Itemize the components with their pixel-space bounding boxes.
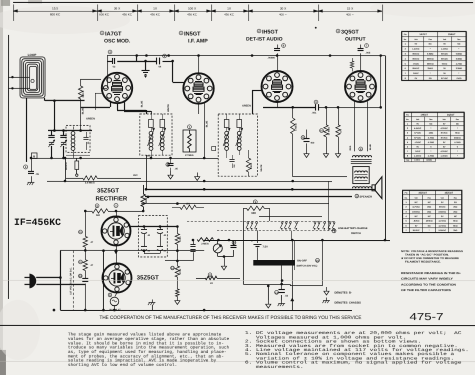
svg-text:GREEN: GREEN <box>86 117 95 120</box>
svg-text:SWITCH: SWITCH <box>351 232 361 235</box>
svg-text:OF THE FILTER CAPACITORS: OF THE FILTER CAPACITORS <box>401 289 451 292</box>
banner rule <box>0 324 475 326</box>
svg-text:.00080: .00080 <box>268 57 276 60</box>
tube V1 1A7GT converter <box>102 73 132 103</box>
resistor 27 MEG <box>183 130 196 152</box>
svg-text:30 X: 30 X <box>280 6 286 10</box>
resistor 1 MEG grid leak <box>292 107 294 118</box>
svg-text:1.4VDC: 1.4VDC <box>414 155 422 158</box>
svg-text:shorting AVC to low end of vol: shorting AVC to low end of volume contro… <box>68 362 177 368</box>
resistor 1000 filament <box>142 185 144 194</box>
wire V1 cathode down <box>117 103 119 110</box>
svg-text:-.8VDC: -.8VDC <box>413 220 420 223</box>
wave switch box <box>76 158 78 161</box>
wire switch verticals <box>291 240 293 286</box>
svg-text:BLUE: BLUE <box>141 100 144 107</box>
wire IF-A primary return <box>145 155 147 189</box>
svg-text:CIRCUITS MAY VARY WIDELY: CIRCUITS MAY VARY WIDELY <box>401 278 453 281</box>
svg-text:2.7MΩ: 2.7MΩ <box>428 136 435 139</box>
voltage table 35Z5GT <box>403 190 462 192</box>
resistor 220K lower <box>176 289 180 297</box>
svg-text:Res: Res <box>429 38 432 41</box>
wire plug to rectifier <box>36 276 60 278</box>
svg-text:1.4VAC: 1.4VAC <box>412 48 420 51</box>
svg-text:456 KC: 456 KC <box>187 12 197 16</box>
wire stub chassis mid <box>151 305 153 310</box>
svg-text:OUTPUT: OUTPUT <box>345 37 366 43</box>
svg-text:750Ω: 750Ω <box>456 77 461 80</box>
wire V6 to pilot lamp <box>115 293 117 297</box>
loop antenna <box>20 57 45 98</box>
svg-text:3 MEG: 3 MEG <box>201 242 209 245</box>
resistor 220K osc grid <box>80 79 82 86</box>
IF-A primary winding <box>149 131 153 135</box>
wire 330 drops <box>242 208 244 221</box>
IF-B tuning arrows <box>223 128 230 146</box>
bus wire y240 <box>204 239 390 241</box>
svg-text:Res: Res <box>454 196 457 199</box>
wire switch bottom <box>290 285 322 287</box>
capacitor C9 .001 coupling <box>314 100 318 104</box>
left frame line <box>7 35 9 299</box>
wire V1 grid elbow <box>110 102 112 107</box>
svg-text:NC: NC <box>428 215 432 218</box>
svg-text:No.: No. <box>406 118 409 121</box>
bus wire y226 filter <box>131 225 178 227</box>
label V4 3Q5GT OUTPUT <box>336 29 340 33</box>
svg-text:measurements.: measurements. <box>245 365 304 370</box>
svg-text:Volt: Volt <box>443 118 447 121</box>
svg-text:15.5: 15.5 <box>52 6 58 10</box>
detector plate bus wire <box>263 107 316 109</box>
wire V6 left pin column <box>102 251 104 310</box>
capacitor C4 .04 IF grid <box>163 54 167 58</box>
battery pack black bar <box>253 260 295 266</box>
svg-text:Res: Res <box>456 118 459 121</box>
svg-text:117 VOLTS A.C. OR D.C.: 117 VOLTS A.C. OR D.C. <box>69 267 72 295</box>
svg-text:IH5GT: IH5GT <box>262 30 279 36</box>
B- ground lower <box>176 296 178 300</box>
svg-text:DENOTES B-: DENOTES B- <box>334 291 351 294</box>
battery switch dashed line A <box>187 220 335 222</box>
wire gang top bus <box>48 129 92 131</box>
svg-text:7VDC: 7VDC <box>415 150 421 153</box>
svg-text:FILAMENT RESISTANCE.: FILAMENT RESISTANCE. <box>405 261 441 264</box>
capacitor C10 .05 cathode <box>166 163 170 167</box>
svg-text:No.: No. <box>404 38 407 41</box>
svg-text:AVC: AVC <box>133 174 138 177</box>
capacitor C12 .05 <box>232 241 236 245</box>
svg-text:4.2VDC: 4.2VDC <box>440 150 448 153</box>
svg-text:9KΩ: 9KΩ <box>455 132 460 135</box>
switch contacts <box>247 222 249 224</box>
svg-text:85VDC: 85VDC <box>441 53 448 56</box>
earth ground between V1 V2 <box>145 61 147 71</box>
capacitor pair 190 <box>192 240 194 245</box>
svg-text:25Ω: 25Ω <box>427 210 431 213</box>
legend denotes chassis <box>325 298 327 301</box>
resistor 4700 filter <box>176 226 178 233</box>
svg-text:Volt: Volt <box>416 118 420 121</box>
bus wire y203 <box>141 202 329 204</box>
top border line <box>13 1 473 3</box>
bus wire y176 B-minus <box>293 176 347 178</box>
svg-text:OSC MOD.: OSC MOD. <box>104 38 131 44</box>
corner smudge <box>1 0 10 6</box>
svg-text:.001: .001 <box>312 111 317 114</box>
legend denotes B- <box>325 287 327 291</box>
svg-text:Volt: Volt <box>441 196 445 199</box>
label SPEAKER <box>355 194 359 198</box>
svg-text:GREEN: GREEN <box>242 105 251 108</box>
label V1 1A7GT OSC MOD <box>100 31 104 35</box>
wire V5 to V6 <box>115 246 117 264</box>
variable capacitor C1B oscillator <box>63 131 65 136</box>
svg-text:I.F. AMP: I.F. AMP <box>188 38 208 44</box>
IF-B primary winding <box>225 131 229 135</box>
svg-text:4.2VDC: 4.2VDC <box>441 127 449 130</box>
capacitor C7 grid trimmer <box>188 125 192 129</box>
svg-text:105VAC: 105VAC <box>412 210 420 213</box>
svg-text:0Ω: 0Ω <box>429 77 432 80</box>
resistor 5.6 MEG <box>31 177 78 179</box>
svg-text:Res: Res <box>457 38 460 41</box>
svg-text:4.7MΩ: 4.7MΩ <box>456 62 463 65</box>
voltage table 1H5GT 3Q5GT <box>404 112 464 114</box>
B- ground screen <box>197 172 199 176</box>
power plug <box>30 274 36 288</box>
svg-text:117VAC: 117VAC <box>438 224 446 227</box>
wire V1 left pin <box>95 92 102 94</box>
svg-text:IF=456KC: IF=456KC <box>14 217 61 228</box>
svg-text:ACCORDING TO THE CONDITION: ACCORDING TO THE CONDITION <box>401 283 456 286</box>
svg-text:600 KC: 600 KC <box>50 12 61 16</box>
svg-text:1.4VAC: 1.4VAC <box>441 48 449 51</box>
svg-text:35Z5GT: 35Z5GT <box>445 192 454 195</box>
svg-text:★ DO NOT USE OHMMETER TO MEASU: ★ DO NOT USE OHMMETER TO MEASURE <box>401 256 459 260</box>
filter capacitor dashed box MFD <box>138 216 167 257</box>
speaker <box>372 185 375 191</box>
tube V3 1H5GT det-1st audio <box>262 71 293 102</box>
resistor 100K diode load <box>248 150 250 158</box>
svg-text:NC: NC <box>429 123 433 126</box>
svg-text:1.4VDC: 1.4VDC <box>414 159 421 162</box>
variable capacitor C1A tuning <box>51 131 53 136</box>
wire loop bottom down <box>26 98 28 162</box>
wire V1 plate drop <box>107 55 109 88</box>
capacitor C11 400MMF <box>301 136 305 140</box>
svg-text:35Z5GT: 35Z5GT <box>418 192 427 195</box>
svg-text:120MΩ: 120MΩ <box>426 159 432 162</box>
svg-text:NC: NC <box>429 43 433 46</box>
IF-A tuning arrows <box>148 128 155 146</box>
wire lamp to bus <box>113 306 115 310</box>
wire loop to tuning gang <box>44 98 46 101</box>
svg-text:104VAC: 104VAC <box>438 229 446 232</box>
svg-text:400 ∼: 400 ∼ <box>346 12 355 16</box>
svg-text:IA7GT: IA7GT <box>105 31 122 37</box>
chassis ground line cap <box>280 301 282 304</box>
svg-text:0.8MΩ: 0.8MΩ <box>427 53 434 56</box>
resistor 470K <box>176 251 178 266</box>
bus wire y189 <box>145 188 375 190</box>
capacitor 20MMF padder <box>86 132 88 138</box>
svg-text:265KΩ: 265KΩ <box>454 136 461 139</box>
capacitor C13 .02 line <box>275 290 279 294</box>
chassis ground AVC <box>31 179 33 182</box>
wire V5 plate <box>115 211 117 216</box>
svg-text:-.6VDC: -.6VDC <box>414 141 421 144</box>
svg-text:RECTIFIER: RECTIFIER <box>95 196 127 203</box>
B- ground volume <box>223 256 225 262</box>
B- ground 400MMF <box>306 150 308 154</box>
svg-text:Res: Res <box>429 118 432 121</box>
svg-text:85VDC: 85VDC <box>413 67 420 70</box>
svg-text:WHITE: WHITE <box>167 104 170 112</box>
electrolytic 20MFD A <box>143 243 145 247</box>
svg-text:5.6VDC: 5.6VDC <box>414 127 422 130</box>
svg-text:BLUE: BLUE <box>369 144 372 150</box>
svg-text:NC: NC <box>428 224 432 227</box>
wire V1 screen elbow <box>124 102 126 111</box>
svg-text:35Z5GT: 35Z5GT <box>97 187 119 194</box>
svg-text:117VAC: 117VAC <box>438 220 446 223</box>
svg-text:3Q5GT: 3Q5GT <box>447 114 455 117</box>
wire V2 grid cap <box>198 55 200 73</box>
IF-A secondary winding <box>160 131 164 135</box>
capacitor C8 .005 plate <box>365 44 369 48</box>
svg-text:91VDC: 91VDC <box>413 229 420 232</box>
tube V4 3Q5GT output <box>345 71 376 102</box>
svg-text:25Ω: 25Ω <box>427 206 431 209</box>
svg-text:SPEAKER: SPEAKER <box>359 195 372 198</box>
svg-text:NC: NC <box>457 43 461 46</box>
svg-text:LOOP: LOOP <box>28 53 37 57</box>
svg-text:25Ω: 25Ω <box>453 206 457 209</box>
label V2 1N5GT IF AMP <box>179 31 183 35</box>
svg-text:87VDC: 87VDC <box>414 136 421 139</box>
paper tone patches <box>0 6 130 34</box>
svg-text:7.5V: 7.5V <box>262 246 268 249</box>
svg-text:475-7: 475-7 <box>409 312 443 323</box>
svg-text:85VDC: 85VDC <box>413 53 420 56</box>
wire filter cap returns <box>143 251 145 254</box>
B- ground 470 <box>338 150 340 154</box>
svg-text:10 MEG: 10 MEG <box>328 127 331 136</box>
wire filament feed <box>60 249 85 251</box>
svg-text:NC: NC <box>454 215 458 218</box>
stage-gain dimension line <box>13 10 382 12</box>
volume control 3 MEG <box>197 238 213 242</box>
svg-text:NC: NC <box>428 201 432 204</box>
wire V2 plate to IF2 <box>198 104 200 114</box>
tube V5 35Z5GT rectifier <box>101 216 130 245</box>
capacitor C5 .05 AVC bypass <box>24 165 28 169</box>
svg-text:No.: No. <box>405 196 408 199</box>
wire gang frame to AVC <box>26 161 31 163</box>
capacitor 250MMF diode <box>232 155 234 159</box>
IF-A leads <box>151 150 153 155</box>
svg-text:100 K: 100 K <box>250 163 253 170</box>
svg-text:.005: .005 <box>366 52 371 55</box>
svg-text:400 ∼: 400 ∼ <box>279 12 288 16</box>
wire osc coil bottom <box>66 154 90 156</box>
svg-text:+: + <box>251 239 253 243</box>
svg-text:3.3MΩ: 3.3MΩ <box>456 57 463 60</box>
label V3 1H5GT DET-1ST AUDIO <box>257 29 261 33</box>
svg-text:30VAC: 30VAC <box>439 206 446 209</box>
svg-text:Volt: Volt <box>414 38 418 41</box>
svg-text:3Q5GT: 3Q5GT <box>341 30 359 36</box>
svg-text:15K: 15K <box>186 202 191 205</box>
AVC bus wire <box>31 157 218 159</box>
svg-text:456 KC: 456 KC <box>150 12 160 16</box>
svg-text:IN5GT: IN5GT <box>184 31 201 37</box>
svg-text:0Ω: 0Ω <box>454 201 457 204</box>
svg-text:THE COOPERATION OF THE MANUFAC: THE COOPERATION OF THE MANUFACTURER OF T… <box>99 315 362 321</box>
svg-text:Volt: Volt <box>415 196 419 199</box>
svg-text:1X: 1X <box>153 6 157 10</box>
electrolytic 40MFD B <box>159 226 161 229</box>
capacitor line bypass <box>78 274 82 278</box>
svg-text:NC: NC <box>415 215 419 218</box>
IF transformer A dashed box <box>140 114 172 155</box>
svg-text:330KΩ: 330KΩ <box>427 57 434 60</box>
svg-text:DENOTES CHASSIS: DENOTES CHASSIS <box>334 302 361 305</box>
svg-text:8KΩ: 8KΩ <box>453 224 458 227</box>
svg-text:100 X: 100 X <box>188 6 196 10</box>
switch box outline <box>242 221 244 284</box>
svg-text:ON-OFF: ON-OFF <box>297 259 307 262</box>
electrolytic 40MFD A <box>143 226 145 229</box>
capacitor C3 .02 osc grid <box>108 50 112 54</box>
svg-text:456 KC: 456 KC <box>122 12 132 16</box>
svg-text:Res: Res <box>428 196 431 199</box>
capacitor C6 .00080 det <box>282 44 286 48</box>
wire V4 plate leads to output transformer <box>354 102 356 152</box>
svg-text:B: B <box>33 154 35 158</box>
svg-text:RESISTANCE READINGS IN THE B+: RESISTANCE READINGS IN THE B+ <box>401 272 462 275</box>
electrolytic 20MFD B <box>159 243 161 247</box>
bottom bus wire <box>60 309 352 311</box>
svg-text:400KΩ: 400KΩ <box>426 220 433 223</box>
output transformer T3 <box>359 147 363 151</box>
svg-text:RED: RED <box>146 155 151 158</box>
svg-text:8KΩ: 8KΩ <box>453 220 458 223</box>
svg-text:600 KC: 600 KC <box>99 12 109 16</box>
svg-text:4700: 4700 <box>179 236 182 242</box>
svg-text:27 MEG: 27 MEG <box>185 154 194 157</box>
right frame wire <box>384 56 386 240</box>
svg-text:RED: RED <box>349 145 352 150</box>
wire V2 bottom to AVC <box>204 103 206 157</box>
wire V3 plate to bus <box>277 102 279 107</box>
voltage table 1A7GT 1N5GT <box>402 31 466 33</box>
svg-text:1000: 1000 <box>145 197 148 203</box>
svg-text:4.7MΩ: 4.7MΩ <box>428 141 435 144</box>
svg-text:85VDC: 85VDC <box>413 57 420 60</box>
tube V6 35Z5GT second <box>102 263 131 292</box>
resistor grid stopper V4 <box>352 58 354 61</box>
svg-text:87VDC: 87VDC <box>441 77 448 80</box>
svg-text:560: 560 <box>96 214 101 217</box>
svg-text:25Ω: 25Ω <box>453 229 457 232</box>
resistor 10 MEG <box>320 129 324 133</box>
svg-text:0.8MΩ: 0.8MΩ <box>456 53 463 56</box>
svg-text:LINE-BATTERY-CHARGE: LINE-BATTERY-CHARGE <box>338 227 368 230</box>
svg-text:456 KC: 456 KC <box>224 12 234 16</box>
resistor 470K circnum <box>171 266 175 270</box>
svg-text:330KΩ: 330KΩ <box>427 62 434 65</box>
svg-text:1MΩ: 1MΩ <box>429 132 434 135</box>
svg-text:25KΩ: 25KΩ <box>427 67 433 70</box>
battery 7.5V <box>256 231 258 244</box>
oscillator coil T1 dashed box <box>66 126 90 153</box>
svg-text:330: 330 <box>251 211 256 215</box>
svg-text:BLUE: BLUE <box>205 120 208 127</box>
svg-text:1H5GT: 1H5GT <box>421 114 429 117</box>
bus wire y181 <box>47 180 332 182</box>
dashed line voltage <box>72 251 74 310</box>
B- ground 10MEG <box>326 150 328 154</box>
pilot lamp <box>110 297 119 306</box>
svg-text:4.7MΩ: 4.7MΩ <box>454 141 461 144</box>
svg-text:220 K: 220 K <box>82 90 85 97</box>
svg-text:1N5GT: 1N5GT <box>448 33 456 36</box>
switch wire y216 <box>259 216 322 218</box>
loop terminal wires <box>8 76 30 78</box>
battery switch dashed line B <box>217 229 335 231</box>
wire pot feed <box>203 181 205 240</box>
wire y261 <box>165 259 193 261</box>
svg-text:1 MEG: 1 MEG <box>294 123 297 131</box>
svg-text:1A7GT: 1A7GT <box>419 33 427 36</box>
svg-text:WHITE: WHITE <box>260 164 263 172</box>
svg-text:NOTE: VOLTAGE & RESISTANCE REA: NOTE: VOLTAGE & RESISTANCE READINGS <box>401 250 463 253</box>
stray mark <box>315 27 317 29</box>
oscillator coil winding <box>71 131 75 135</box>
svg-text:25Ω: 25Ω <box>453 210 457 213</box>
resistor 560 surge <box>95 204 99 208</box>
fold line <box>0 279 475 281</box>
bus wire y196 <box>145 195 352 197</box>
svg-text:1X: 1X <box>227 6 231 10</box>
svg-text:87VDC: 87VDC <box>441 136 448 139</box>
label LINE-BATTERY-CHARGE SWITCH <box>332 229 336 233</box>
tube V2 1N5GT IF amplifier <box>183 73 213 103</box>
wire to V2 grid <box>172 61 174 82</box>
wire V3 grid to IF-B <box>252 90 261 92</box>
svg-text:NC: NC <box>415 201 419 204</box>
wire B+ feed right <box>380 56 382 108</box>
svg-text:0VDC: 0VDC <box>413 72 419 75</box>
IF-A trimmer capacitors <box>149 119 154 127</box>
svg-text:BLUE: BLUE <box>82 107 85 114</box>
IF transformer B dashed box <box>218 114 257 176</box>
svg-text:36 X: 36 X <box>114 6 120 10</box>
resistor 47 A <box>79 230 83 234</box>
B- ground switch <box>267 286 269 300</box>
svg-text:TAKEN IN “AC-DC” POSITION.: TAKEN IN “AC-DC” POSITION. <box>405 253 449 256</box>
resistor 470 <box>338 107 340 124</box>
B+ top bus wire <box>107 54 385 56</box>
svg-text:85VDC: 85VDC <box>441 57 448 60</box>
svg-text:87VDC: 87VDC <box>441 132 448 135</box>
svg-text:DET-IST AUDIO: DET-IST AUDIO <box>246 37 283 43</box>
svg-text:4.7MΩ: 4.7MΩ <box>428 155 435 158</box>
svg-text:-6VDC: -6VDC <box>413 62 420 65</box>
wire switch B-minus return <box>291 286 293 310</box>
